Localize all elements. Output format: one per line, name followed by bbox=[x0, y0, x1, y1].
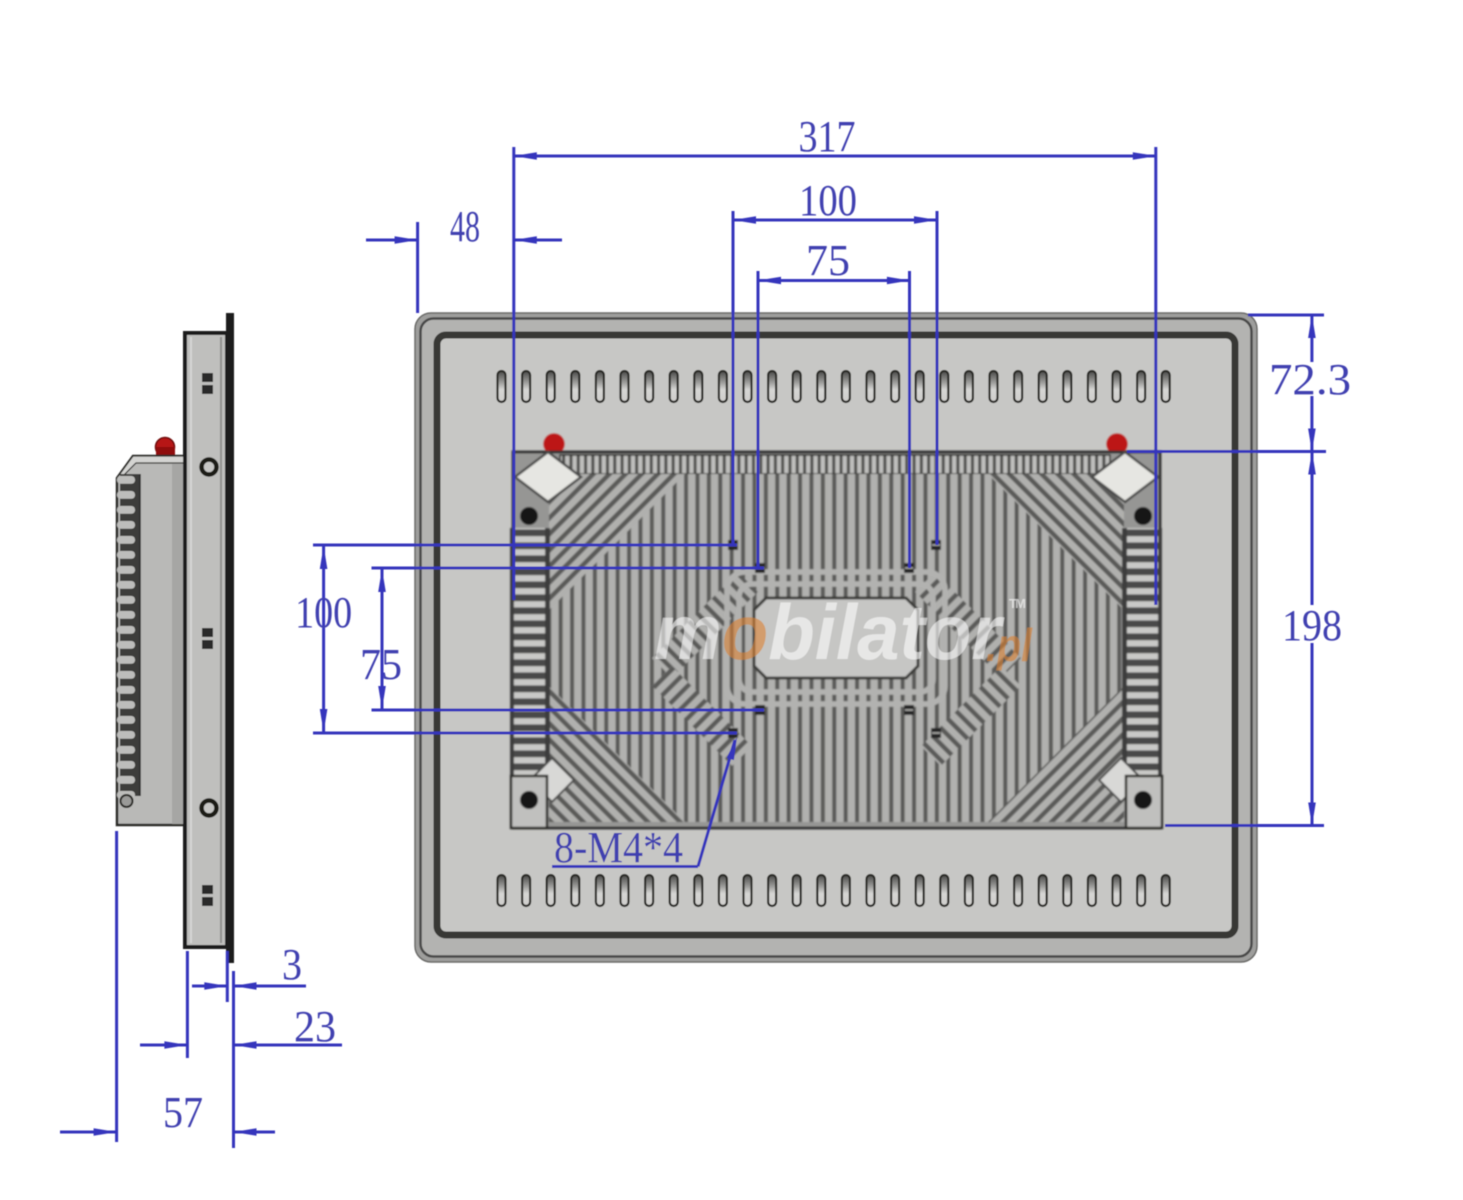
dim 75 top bbox=[758, 279, 910, 282]
rear panel inner frame bbox=[437, 335, 1235, 935]
heatsink corner diamond top-left bbox=[515, 452, 581, 502]
rear panel outer shell bbox=[415, 313, 1257, 962]
svg-text:23: 23 bbox=[294, 1002, 336, 1051]
heatsink corner bottom-left screw box bbox=[530, 758, 574, 802]
svg-text:mobilator: mobilator bbox=[654, 588, 1005, 676]
heatsink fault bands around plate bbox=[652, 572, 758, 678]
svg-text:75: 75 bbox=[360, 640, 402, 689]
svg-text:100: 100 bbox=[295, 588, 352, 637]
heatsink right serrated column bbox=[1122, 528, 1162, 776]
heatsink left serrated column bbox=[510, 528, 550, 776]
svg-text:198: 198 bbox=[1282, 601, 1342, 650]
side view body with heatsink teeth bbox=[117, 456, 185, 825]
svg-text:317: 317 bbox=[799, 112, 856, 161]
svg-text:48: 48 bbox=[450, 202, 480, 251]
wire ext 75 left bbox=[757, 271, 760, 568]
dim 23 bottom bbox=[140, 1044, 187, 1047]
svg-text:72.3: 72.3 bbox=[1269, 355, 1351, 404]
dim 100 left vertical bbox=[313, 544, 737, 547]
vent slots top row bbox=[498, 371, 1170, 402]
heatsink center plate bbox=[754, 598, 918, 678]
wire ext 317 right bbox=[1154, 147, 1157, 605]
dim 75 left vertical bbox=[381, 569, 384, 709]
wire ext 100 right bbox=[936, 211, 939, 545]
dim 72.3 right bbox=[1248, 314, 1324, 317]
watermark mobilator.pl bbox=[654, 588, 1033, 676]
wire ext x227 bbox=[226, 951, 229, 1002]
wire ext x116 bbox=[115, 831, 118, 1142]
svg-text:3: 3 bbox=[282, 940, 302, 989]
side view front strip bbox=[226, 313, 234, 963]
heatsink corner chevron fans bbox=[549, 474, 685, 610]
wire ext 100 left bbox=[732, 211, 735, 545]
side view mounting bracket bar bbox=[185, 333, 227, 947]
dim 57 bottom bbox=[60, 1131, 117, 1134]
wire ext x187 bbox=[186, 951, 189, 1058]
svg-text:100: 100 bbox=[799, 176, 857, 225]
dim 48 bbox=[366, 239, 418, 242]
wire ext 317 left bbox=[512, 147, 515, 600]
dim 317 bbox=[514, 155, 1156, 158]
dim 198 right bbox=[1165, 824, 1324, 827]
dim 3 bottom bbox=[192, 985, 227, 988]
wire ext x233 bbox=[232, 971, 235, 1148]
svg-text:8-M4*4: 8-M4*4 bbox=[554, 823, 683, 872]
heatsink mounting plate bbox=[513, 452, 1160, 828]
svg-text:75: 75 bbox=[806, 236, 850, 285]
VESA mounting holes 8-M4 bbox=[728, 540, 738, 550]
svg-text:TM: TM bbox=[1009, 596, 1026, 611]
heatsink main fin field bbox=[549, 474, 1124, 822]
svg-text:.pl: .pl bbox=[986, 619, 1033, 671]
heatsink rings around center plate bbox=[727, 572, 945, 704]
svg-text:57: 57 bbox=[163, 1088, 203, 1137]
dim 100 top bbox=[733, 219, 937, 222]
heatsink top fin band bbox=[560, 455, 1110, 474]
vent slots bottom row bbox=[498, 875, 1170, 906]
heatsink corner diamond top-right bbox=[1092, 452, 1158, 502]
wire ext 48 bbox=[416, 222, 419, 313]
heatsink red corner buttons bbox=[544, 434, 565, 455]
heatsink corner bottom-right screw box bbox=[1099, 758, 1143, 802]
side view red power button bbox=[156, 438, 175, 457]
wire ext 75 right bbox=[908, 271, 911, 568]
